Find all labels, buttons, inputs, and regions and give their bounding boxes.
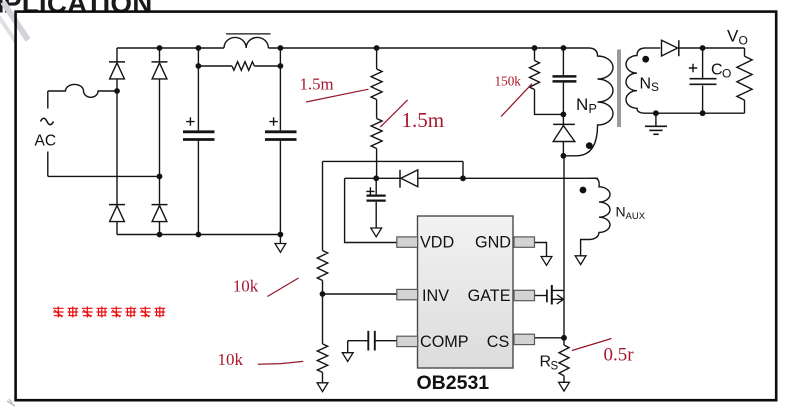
winding NP primary bbox=[563, 48, 613, 156]
resistor R5 150k bbox=[530, 61, 540, 90]
phase dot NS bbox=[642, 56, 649, 63]
svg-text:PLICATION: PLICATION bbox=[3, 0, 153, 19]
resistor RS sense bbox=[559, 345, 569, 376]
pin 5 CS bbox=[514, 334, 535, 344]
node bottom rail D4 bbox=[157, 232, 163, 238]
wire bridge left leg bbox=[116, 48, 118, 235]
wire INV to pin bbox=[323, 293, 397, 295]
svg-text:N: N bbox=[640, 75, 652, 92]
wire INV node down bbox=[322, 294, 324, 344]
svg-text:0.5r: 0.5r bbox=[604, 344, 635, 365]
svg-text:C: C bbox=[711, 62, 723, 79]
diode D1 (bridge top-left) bbox=[109, 62, 125, 79]
winding NAUX auxiliary bbox=[581, 178, 610, 256]
wire RS bottom bbox=[563, 376, 565, 383]
capacitor CO (output) bbox=[689, 48, 717, 113]
pointer line 0.5r bbox=[572, 339, 612, 351]
label CO bbox=[711, 62, 731, 81]
svg-text:AUX: AUX bbox=[626, 211, 646, 222]
ground VDD cap bbox=[371, 228, 382, 237]
svg-text:GND: GND bbox=[475, 234, 511, 252]
pointer line 1.5m first bbox=[306, 89, 369, 102]
ground RS bbox=[559, 382, 570, 391]
value label 10k lower bbox=[218, 350, 244, 369]
node damp right bbox=[278, 63, 284, 69]
ground divider bbox=[317, 383, 328, 392]
resistor R1 1.5M bbox=[371, 69, 382, 100]
node damp left bbox=[196, 63, 202, 69]
ground IC bbox=[541, 257, 552, 266]
diode D6 (snubber) bbox=[553, 124, 575, 141]
pin 3 COMP bbox=[397, 336, 418, 346]
wire AC bottom bbox=[48, 175, 160, 177]
wire drain-source vertical bbox=[563, 156, 565, 345]
node rail D2 bbox=[157, 45, 163, 51]
wire damping branch bbox=[198, 65, 280, 67]
node bottom C2 bbox=[278, 232, 284, 238]
svg-text:CS: CS bbox=[487, 333, 510, 351]
resistor R damp bbox=[232, 62, 254, 71]
svg-text:O: O bbox=[739, 34, 748, 48]
pointer line 10k lower bbox=[258, 361, 303, 364]
capacitor C5 (snubber) bbox=[553, 48, 577, 124]
wire D6 to drain node bbox=[562, 142, 564, 156]
resistor R2 1.5M bbox=[371, 119, 382, 149]
svg-text:S: S bbox=[551, 360, 559, 372]
value label 1.5m second bbox=[402, 108, 445, 132]
op IC U1 OB2531 body bbox=[418, 216, 514, 368]
node snubber bbox=[561, 112, 567, 118]
wire R2 to VDD node bbox=[376, 149, 378, 179]
wire GND pin bbox=[535, 243, 547, 257]
ground NAUX bbox=[575, 256, 586, 265]
wire top rail bbox=[117, 47, 224, 49]
wire startup top bbox=[376, 48, 378, 69]
ground COMP bbox=[342, 353, 353, 362]
wire D5 to aux node bbox=[418, 177, 598, 179]
capacitor C1 (bulk) bbox=[183, 48, 215, 235]
svg-text:AC: AC bbox=[35, 133, 57, 150]
red watermark text bbox=[53, 306, 165, 317]
wire NS bottom bbox=[645, 112, 745, 114]
wire divider upper bbox=[322, 161, 324, 250]
svg-text:GATE: GATE bbox=[468, 287, 511, 305]
svg-text:10k: 10k bbox=[218, 350, 244, 369]
label INV bbox=[422, 287, 449, 305]
fuse F1 bbox=[48, 84, 117, 97]
capacitor C4 (COMP) bbox=[348, 331, 375, 351]
wire D7 to output bbox=[679, 47, 745, 49]
wire top rail center bbox=[268, 47, 589, 49]
wire CS pin bbox=[535, 337, 564, 339]
svg-text:R: R bbox=[540, 353, 552, 370]
label OB2531 bbox=[417, 372, 490, 394]
diode D4 (bridge bottom-right) bbox=[152, 205, 168, 222]
value label 10k upper bbox=[233, 276, 259, 295]
wire R4 bottom bbox=[322, 372, 324, 382]
page-curl watermark bbox=[0, 2, 28, 406]
label CS bbox=[487, 333, 510, 351]
diode D7 (output rectifier) bbox=[662, 40, 679, 56]
ground bulk rail bbox=[275, 235, 286, 253]
wire 150k top bbox=[534, 48, 536, 61]
svg-text:COMP: COMP bbox=[420, 333, 469, 351]
wire bridge right leg bbox=[159, 48, 161, 235]
phase dot NAUX bbox=[580, 187, 587, 194]
svg-text:OB2531: OB2531 bbox=[417, 372, 490, 394]
node INV bbox=[320, 291, 326, 297]
svg-text:O: O bbox=[722, 67, 731, 81]
label NP bbox=[576, 95, 597, 116]
node NS gnd bbox=[653, 110, 659, 116]
svg-text:150k: 150k bbox=[495, 73, 522, 88]
wire COMP cap to gnd bbox=[347, 341, 349, 353]
value label 1.5m first bbox=[300, 75, 334, 94]
node rail startup bbox=[374, 45, 380, 51]
wire VDD horizontal bbox=[345, 177, 400, 179]
svg-text:INV: INV bbox=[422, 287, 449, 305]
label NS bbox=[640, 75, 660, 94]
node bottom C1 bbox=[196, 232, 202, 238]
pointer line 1.5m second bbox=[380, 100, 407, 127]
value label 150k bbox=[495, 73, 522, 88]
transistor Q1 (MOSFET) bbox=[547, 285, 564, 305]
winding NS secondary bbox=[626, 48, 645, 113]
wire COMP to cap bbox=[375, 340, 397, 342]
pointer line 150k bbox=[501, 84, 532, 117]
value label 0.5r bbox=[604, 344, 635, 365]
node rail C2 bbox=[278, 45, 284, 51]
wire divider top bbox=[323, 161, 464, 178]
svg-text:S: S bbox=[651, 80, 659, 94]
node VDD bbox=[373, 175, 379, 181]
svg-text:1.5m: 1.5m bbox=[402, 108, 445, 132]
diode D5 (VDD rectifier) bbox=[400, 170, 418, 188]
AC source bbox=[35, 91, 57, 176]
label COMP bbox=[420, 333, 469, 351]
core bbox=[617, 50, 621, 128]
phase dot NP bbox=[586, 142, 593, 149]
resistor R3 10k (upper) bbox=[317, 251, 327, 281]
capacitor C2 (bulk) bbox=[265, 48, 297, 235]
node rail snubber cap bbox=[561, 45, 567, 51]
wire bottom rail (primary bus) bbox=[117, 234, 280, 236]
label RS bbox=[540, 353, 559, 372]
node aux sense bbox=[460, 175, 466, 181]
node rail C1 bbox=[196, 45, 202, 51]
node AC neutral junction bbox=[157, 174, 163, 180]
ground secondary (earth) bbox=[645, 113, 667, 134]
pin 2 INV bbox=[397, 289, 418, 299]
inductor L1 (input filter) bbox=[224, 34, 271, 48]
resistor R load bbox=[737, 48, 752, 113]
node CS bbox=[561, 335, 567, 341]
label VO bbox=[727, 27, 748, 48]
diode D3 (bridge bottom-left) bbox=[109, 205, 125, 222]
pin 1 VDD bbox=[397, 237, 418, 247]
svg-text:P: P bbox=[589, 102, 597, 116]
svg-text:VDD: VDD bbox=[420, 234, 454, 252]
node rail 150k bbox=[532, 45, 538, 51]
node CO bottom bbox=[700, 110, 706, 116]
pin 6 GATE bbox=[514, 290, 535, 300]
svg-text:V: V bbox=[727, 27, 739, 46]
wire between R1 R2 bbox=[376, 100, 378, 119]
svg-text:N: N bbox=[616, 204, 626, 220]
title text APPLICATION (cropped) bbox=[0, 0, 153, 19]
node NP bottom bbox=[561, 153, 567, 159]
pointer line 10k upper bbox=[267, 278, 298, 297]
svg-text:N: N bbox=[576, 95, 588, 114]
node AC line junction bbox=[114, 88, 120, 94]
label GATE bbox=[468, 287, 511, 305]
resistor R4 10k (lower) bbox=[317, 344, 327, 373]
wire NS top bbox=[645, 47, 660, 49]
label GND bbox=[475, 234, 511, 252]
svg-text:1.5m: 1.5m bbox=[300, 75, 334, 94]
capacitor C3 (VDD) bbox=[366, 178, 385, 228]
label VDD bbox=[420, 234, 454, 252]
wire R3 to INV node bbox=[322, 281, 324, 295]
wire VDD to pin bbox=[345, 178, 397, 242]
svg-text:10k: 10k bbox=[233, 276, 259, 295]
pin 8 GND bbox=[514, 237, 535, 247]
wire GATE pin bbox=[535, 295, 547, 297]
diode D2 (bridge top-right) bbox=[152, 62, 168, 79]
wire 150k bottom bbox=[535, 90, 564, 115]
node CO top bbox=[700, 45, 706, 51]
label NAUX bbox=[616, 204, 646, 223]
